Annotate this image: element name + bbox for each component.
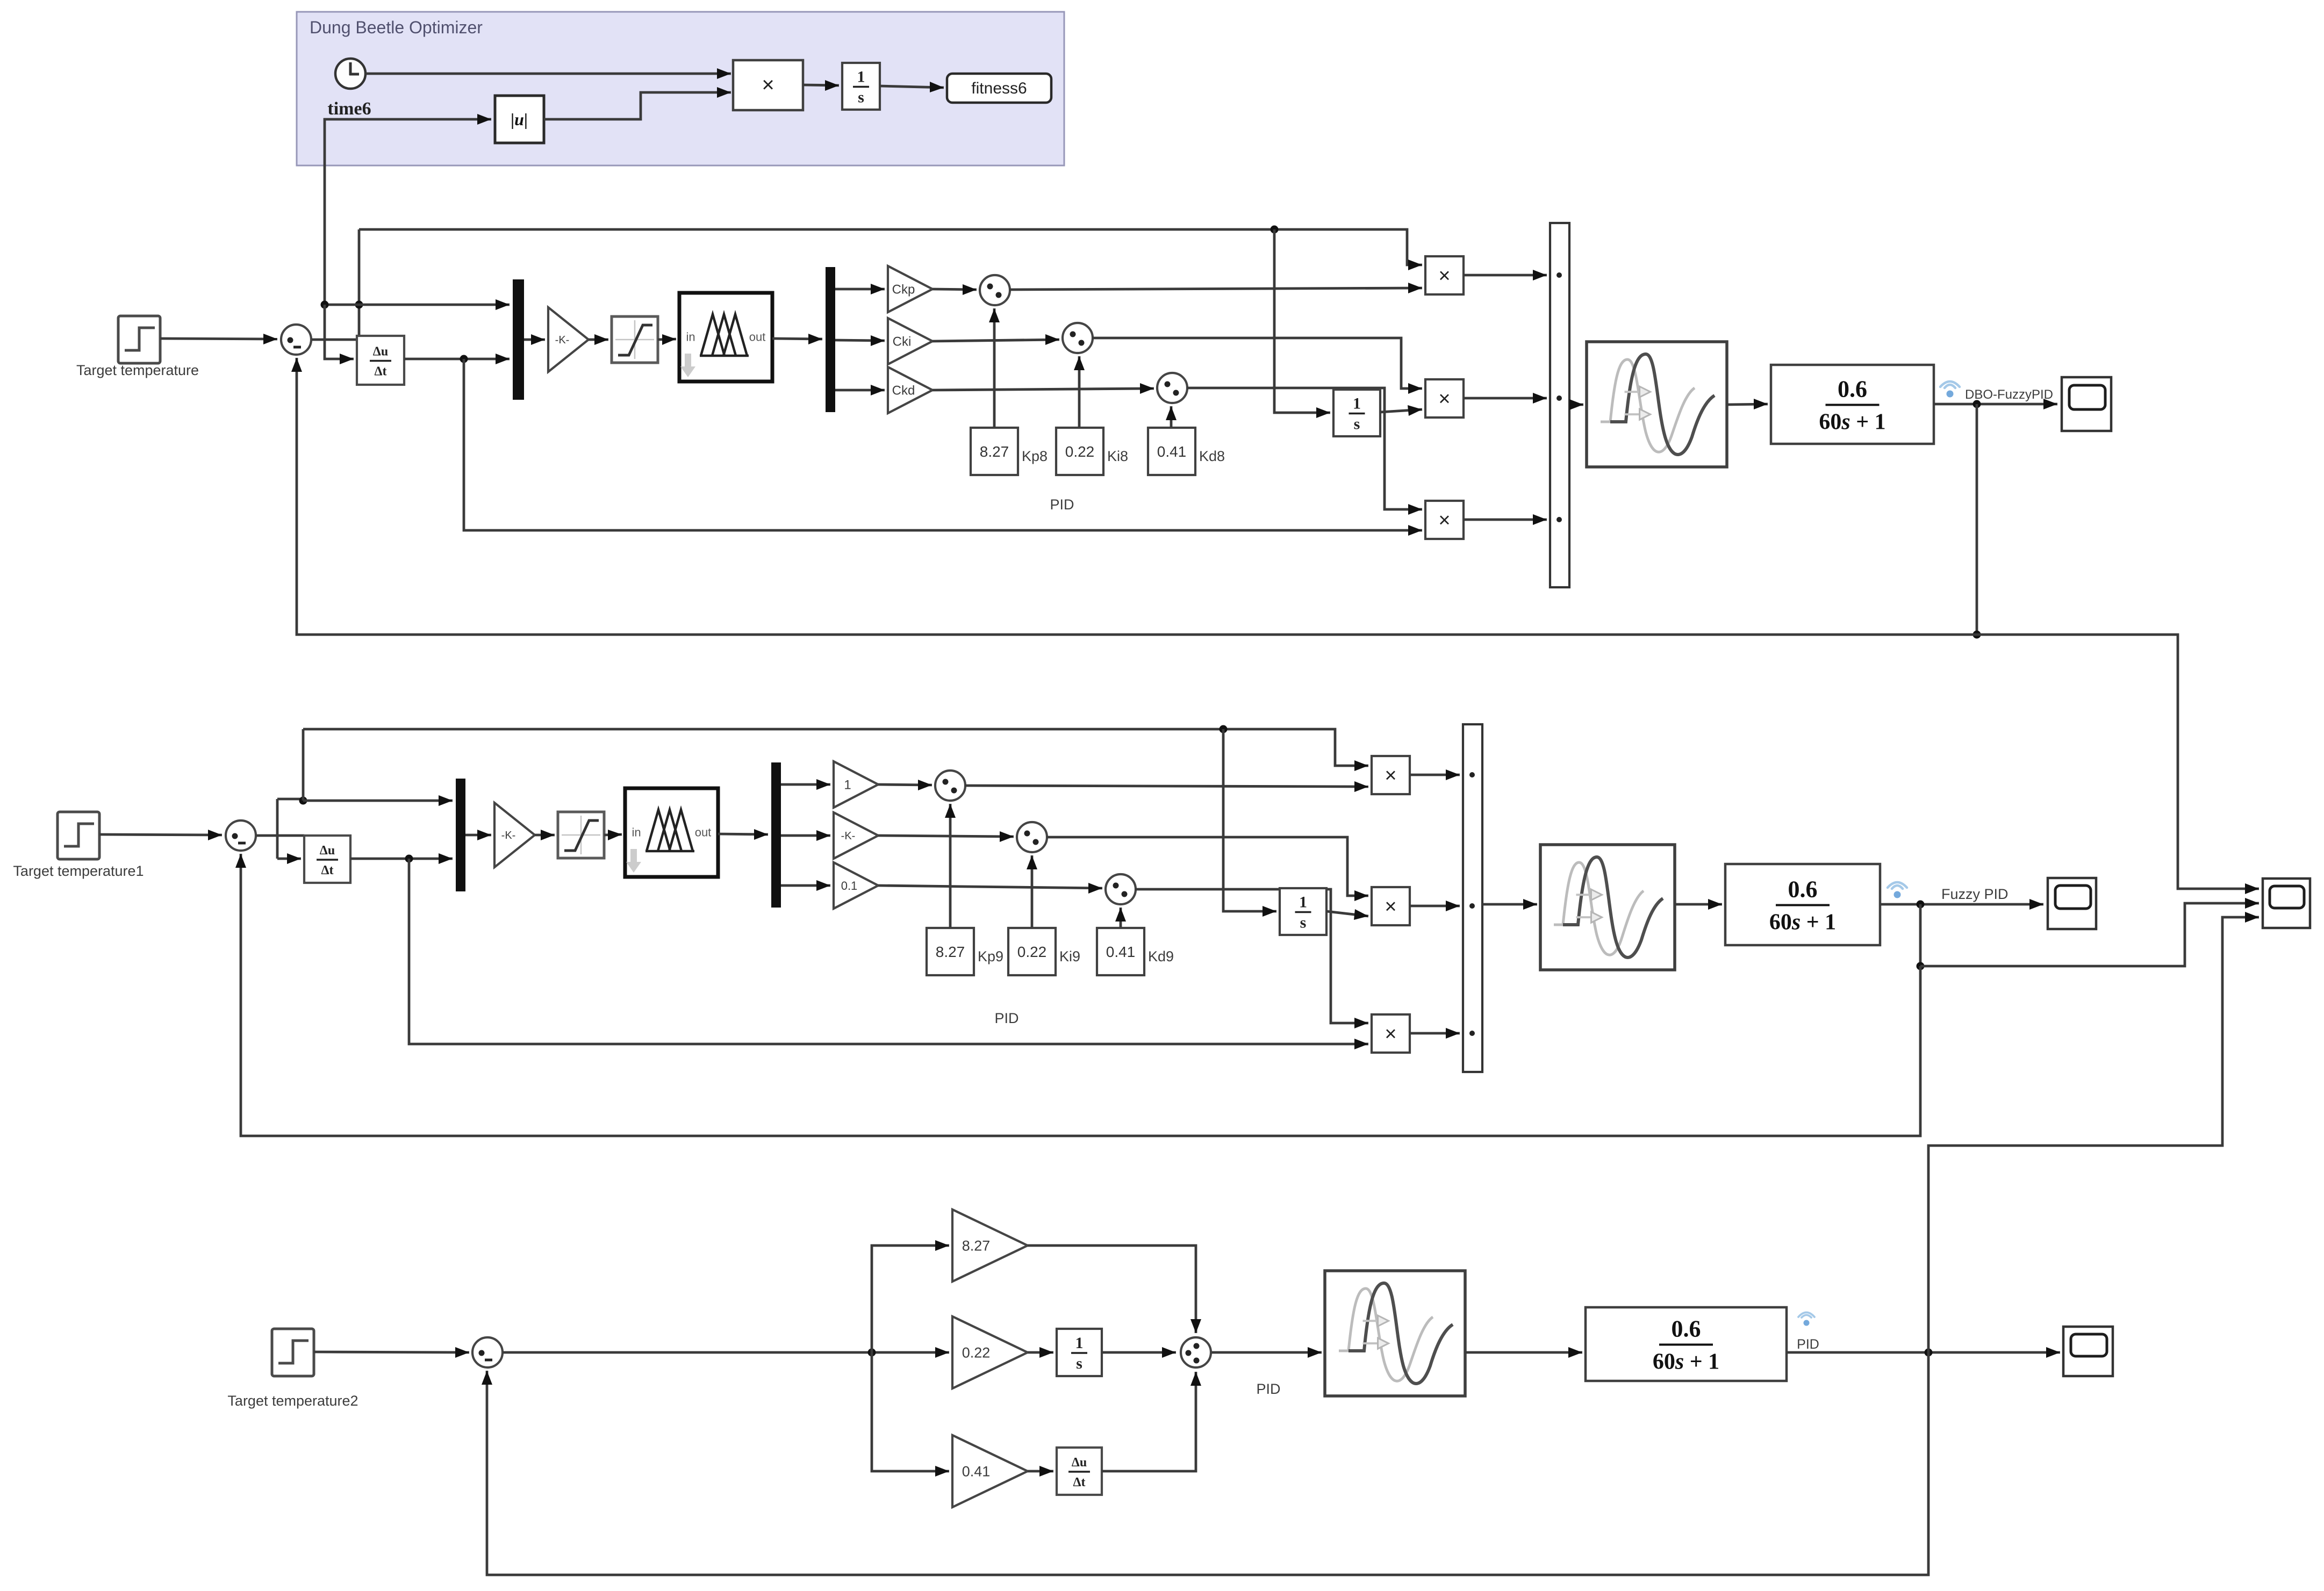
wire Kd sum to product 3 (middle) [1135, 889, 1368, 1028]
svg-text:60s + 1: 60s + 1 [1769, 910, 1836, 935]
product 3 (middle) [1372, 1014, 1410, 1053]
mux (middle row) [456, 779, 465, 891]
svg-text:out: out [695, 826, 712, 839]
wire du/dt to mux 2 (middle) [350, 853, 453, 864]
wire error riser (middle) [302, 729, 305, 801]
wire product 2 to adder [1464, 393, 1547, 404]
wire product to integrator [803, 80, 839, 91]
node e to integrator [1271, 226, 1279, 234]
wire bracket vertical (middle) [276, 799, 279, 859]
wire gain to saturation (middle) [535, 830, 555, 840]
transfer fcn 0.6/(60s+1) (top) [1771, 365, 1934, 444]
wire rate block to transfer fcn [1727, 399, 1768, 409]
gain Ckd [888, 367, 933, 413]
svg-text:0.41: 0.41 [962, 1464, 991, 1480]
node error branch 1 [355, 301, 363, 309]
product 1 (top) [1425, 256, 1464, 294]
svg-text:-K-: -K- [841, 830, 856, 842]
wire du/dt to mux input 2 [404, 354, 510, 364]
wire rate block to transfer fcn (bottom) [1465, 1347, 1582, 1358]
wire gain to saturation [589, 334, 608, 345]
wire rate block to transfer fcn (middle) [1675, 899, 1722, 910]
svg-text:1: 1 [1353, 395, 1361, 413]
wire sum to branch node [503, 1347, 949, 1358]
wire Cki to sum [933, 334, 1059, 345]
wire e down to integrator [1274, 229, 1330, 418]
svg-text:PID: PID [1050, 496, 1074, 513]
svg-text:0.6: 0.6 [1672, 1316, 1701, 1342]
wire clock to product [365, 68, 731, 79]
svg-text:1: 1 [844, 778, 851, 793]
node PID branch [868, 1349, 876, 1357]
svg-text:Ckp: Ckp [892, 283, 915, 297]
svg-text:Dung Beetle Optimizer: Dung Beetle Optimizer [310, 18, 483, 37]
wire abs to product [544, 87, 731, 119]
integrator 1/s (middle) [1280, 888, 1326, 935]
wire saturation to fuzzy controller [658, 334, 676, 345]
gain 0.22 (bottom) [952, 1316, 1028, 1388]
wire integrator to product 2 (middle) [1326, 909, 1368, 920]
svg-text:0.22: 0.22 [962, 1345, 991, 1361]
wire Kp sum to product 1 [1009, 283, 1422, 293]
svg-text:0.6: 0.6 [1838, 376, 1867, 402]
abs block |u| [495, 96, 544, 143]
svg-text:8.27: 8.27 [936, 944, 965, 960]
wire sum output to corner [312, 339, 359, 341]
svg-text:60s + 1: 60s + 1 [1653, 1350, 1719, 1374]
wire Ckd to sum [933, 383, 1154, 394]
svg-text:s: s [1076, 1355, 1082, 1372]
wire Ki sum to product 2 (middle) [1046, 837, 1368, 901]
svg-text:Δu: Δu [373, 345, 388, 359]
sum Kp adjust (middle) [935, 771, 965, 801]
step source Target temperature2 [272, 1329, 314, 1376]
product 3 (top) [1425, 501, 1464, 539]
wire Fuzzy PID to compare scope [1920, 898, 2259, 966]
wire integrator to product 2 [1380, 405, 1422, 416]
node DBO output [1973, 400, 1981, 408]
scope DBO-FuzzyPID [2062, 377, 2111, 431]
scope PID [2063, 1327, 2113, 1376]
wire step to sum [160, 334, 277, 344]
wire demux out 1 [835, 284, 885, 294]
svg-text:fitness6: fitness6 [971, 80, 1027, 97]
gain Cki [888, 318, 933, 364]
mux (top row) [513, 279, 524, 400]
wire branch to derivative tap [325, 304, 359, 306]
wire Kd sum to product 3 [1187, 388, 1422, 515]
wire error top line to product 1 [359, 229, 1422, 270]
sum PID (bottom) [1181, 1337, 1211, 1367]
svg-text:s: s [1354, 415, 1360, 433]
svg-text:Target temperature: Target temperature [76, 362, 199, 378]
sum Ki adjust (middle) [1017, 822, 1047, 852]
wire demux out 1 (middle) [781, 779, 830, 790]
svg-text:Ki8: Ki8 [1107, 448, 1128, 464]
wire feedback (middle) [235, 854, 1920, 1136]
svg-text:×: × [1438, 388, 1450, 411]
demux (top row) [826, 267, 835, 412]
wifi badge (top) [1940, 381, 1960, 398]
wire integrator to fitness6 [880, 82, 944, 92]
wire e to integrator (middle) [1223, 729, 1276, 917]
constant 8.27 Kp8 [971, 428, 1018, 475]
svg-text:1: 1 [1299, 894, 1307, 911]
wire demux out 3 (middle) [781, 880, 830, 891]
node error branch (middle) [299, 797, 307, 805]
gain 0.1 (middle) [834, 862, 878, 909]
wifi badge (bottom) [1798, 1312, 1814, 1326]
wire gainK to sum (middle) [878, 831, 1014, 842]
saturation block (middle) [558, 812, 604, 858]
wire Kd9 to sum [1115, 908, 1126, 928]
svg-text:Δt: Δt [374, 365, 386, 379]
svg-text:Kd9: Kd9 [1148, 948, 1174, 964]
wire demux out 2 (middle) [781, 830, 830, 841]
gain -K- (middle) [494, 803, 535, 867]
outport fitness6 [947, 74, 1051, 103]
scope Fuzzy PID [2048, 878, 2096, 929]
wire mux to gain (middle) [465, 830, 491, 840]
svg-text:1: 1 [857, 68, 865, 86]
node feedback split (top) [1973, 631, 1981, 639]
svg-text:Ki9: Ki9 [1059, 948, 1080, 964]
wire mux to gain [524, 334, 545, 345]
fuzzy logic controller (middle) [625, 788, 718, 877]
rate limiter block (top) [1587, 342, 1727, 467]
derivative block du/dt (bottom) [1057, 1448, 1102, 1495]
svg-text:Δt: Δt [321, 863, 333, 877]
svg-text:Δu: Δu [320, 844, 335, 858]
svg-text:0.41: 0.41 [1106, 944, 1136, 960]
sum junction S2 (middle row) [226, 820, 256, 851]
gain -K- demux (middle) [834, 812, 878, 859]
svg-text:8.27: 8.27 [962, 1238, 991, 1254]
svg-text:×: × [1385, 765, 1396, 787]
gain Ckp [888, 266, 933, 312]
node error branch 2 [321, 301, 329, 309]
product 1 (middle) [1372, 756, 1410, 794]
node e to integrator (middle) [1220, 725, 1228, 733]
product 2 (middle) [1372, 887, 1410, 925]
svg-text:Δu: Δu [1072, 1456, 1087, 1470]
rate limiter block (middle) [1540, 845, 1675, 970]
sum junction S1 (top row) [281, 325, 311, 355]
product 2 (top) [1425, 379, 1464, 417]
wire sum output (middle) [256, 834, 304, 837]
wire step1 to sum [99, 830, 222, 840]
step source Target temperature1 [58, 812, 99, 859]
svg-text:Cki: Cki [893, 335, 912, 349]
svg-text:0.1: 0.1 [841, 879, 858, 892]
transfer fcn 0.6/(60s+1) (bottom) [1586, 1307, 1787, 1381]
wire feedback to sum (top) [291, 358, 1977, 635]
wire error top line (middle) [303, 729, 1368, 771]
svg-text:in: in [686, 330, 695, 344]
wire error to mux input 1 [359, 299, 510, 310]
adder bar (middle) [1463, 724, 1482, 1072]
wire transfer fcn to scope [1934, 399, 2057, 409]
gain -K- (top) [548, 307, 589, 372]
wire Ki sum to product 2 [1092, 338, 1422, 394]
constant 8.27 Kp9 [927, 928, 974, 975]
wire Kp to big sum [1028, 1246, 1201, 1333]
svg-text:|u|: |u| [511, 110, 528, 129]
wire product 1 to adder [1464, 270, 1547, 280]
saturation block (top) [612, 316, 658, 363]
svg-text:s: s [858, 89, 864, 106]
svg-text:0.6: 0.6 [1788, 876, 1818, 903]
gain 0.41 (bottom) [952, 1435, 1028, 1507]
svg-text:0.22: 0.22 [1065, 443, 1095, 460]
svg-text:Kp9: Kp9 [978, 948, 1003, 964]
node output split (middle) [1917, 962, 1925, 970]
svg-text:0.22: 0.22 [1017, 944, 1047, 960]
wire branch up to Kp gain [872, 1240, 949, 1352]
svg-text:×: × [762, 73, 774, 97]
wire Ki9 to sum [1027, 855, 1037, 928]
wire product 3 to adder [1464, 514, 1547, 525]
svg-text:-K-: -K- [555, 334, 570, 346]
wire gain1 to sum (middle) [878, 780, 932, 790]
wire product 1 to adder (middle) [1410, 769, 1460, 780]
wire bracket to du/dt (middle) [277, 853, 301, 864]
gain 1 (middle) [834, 761, 878, 808]
scope compare (3 inputs) [2263, 879, 2310, 928]
wire error riser [358, 229, 361, 340]
wire transfer fcn to scope (middle) [1880, 899, 2043, 910]
wire Ckp to sum [933, 284, 977, 295]
step source Target temperature [118, 316, 160, 363]
svg-text:Kp8: Kp8 [1022, 448, 1048, 464]
wire Ki8 to sum [1074, 356, 1085, 428]
sum Kp adjust (top) [980, 275, 1010, 305]
node PID output [1925, 1349, 1933, 1357]
wire big sum to rate block [1211, 1347, 1322, 1358]
wire fuzzy to demux (middle) [718, 829, 768, 840]
clock time6 [335, 59, 365, 89]
svg-text:Δt: Δt [1073, 1475, 1085, 1489]
wire demux out 3 [835, 385, 885, 395]
fuzzy logic controller (top) [679, 293, 772, 381]
wire product 2 to adder (middle) [1410, 901, 1460, 911]
wire Kd gain to du/dt [1028, 1466, 1053, 1477]
wire transfer fcn to scope (bottom) [1787, 1347, 2060, 1358]
integrator 1/s (DBO) [842, 63, 880, 110]
wire gain01 to sum (middle) [878, 883, 1102, 894]
wire ec down to product 3 [464, 359, 1422, 536]
derivative block du/dt (middle) [304, 836, 350, 883]
svg-text:s: s [1300, 914, 1307, 932]
wire error tap into abs [325, 114, 491, 305]
svg-text:Kd8: Kd8 [1199, 448, 1225, 464]
node ec branch (middle) [405, 855, 413, 863]
svg-text:-K-: -K- [501, 830, 516, 841]
svg-text:out: out [749, 330, 766, 344]
wire step2 to sum [314, 1347, 469, 1358]
wire error to mux 1 (middle) [303, 795, 453, 806]
gain 8.27 (bottom) [952, 1210, 1028, 1282]
wire integrator to big sum [1102, 1347, 1176, 1358]
svg-text:Target temperature2: Target temperature2 [227, 1393, 358, 1409]
sum junction S3 (bottom row) [472, 1337, 503, 1367]
derivative block du/dt (top) [357, 336, 404, 385]
svg-text:DBO-FuzzyPID: DBO-FuzzyPID [1965, 387, 2053, 402]
wire Kd8 to sum [1166, 406, 1177, 428]
svg-text:0.41: 0.41 [1157, 443, 1187, 460]
wire du/dt to big sum [1102, 1372, 1201, 1471]
wire fuzzy to demux [772, 334, 822, 344]
svg-text:Ckd: Ckd [892, 384, 915, 398]
svg-text:Fuzzy PID: Fuzzy PID [1941, 886, 2009, 902]
constant 0.22 Ki9 [1008, 928, 1056, 975]
svg-text:8.27: 8.27 [980, 443, 1009, 460]
product block (DBO) [733, 60, 803, 110]
wire adder to rate block [1569, 399, 1583, 410]
wire Kp sum to product 1 (middle) [965, 781, 1368, 792]
wire product 3 to adder (middle) [1410, 1028, 1460, 1039]
svg-text:PID: PID [994, 1010, 1018, 1026]
svg-text:×: × [1438, 265, 1450, 287]
constant 0.41 Kd9 [1097, 928, 1144, 975]
wire Kp9 to sum [945, 804, 956, 928]
wire Kp8 to sum [989, 308, 1000, 428]
demux (middle row) [771, 762, 781, 908]
wire ec to product 3 (middle) [409, 859, 1368, 1049]
sum Kd adjust (top) [1157, 373, 1187, 403]
wire feedback down (top) [1976, 404, 1978, 635]
svg-text:Target temperature1: Target temperature1 [13, 863, 144, 879]
node Fuzzy PID output [1917, 901, 1925, 909]
svg-text:PID: PID [1256, 1381, 1280, 1397]
wire bracket top (middle) [277, 798, 303, 801]
wire DBO output to compare scope [1977, 635, 2259, 894]
adder bar (top) [1550, 223, 1569, 587]
svg-text:×: × [1385, 896, 1396, 918]
wire feedback (bottom) [482, 1352, 1928, 1575]
subsystem area Dung Beetle Optimizer [297, 12, 1064, 165]
svg-text:PID: PID [1797, 1337, 1819, 1352]
svg-text:×: × [1385, 1023, 1396, 1046]
wire saturation to fuzzy (middle) [604, 830, 622, 840]
wire branch down to Kd gain [872, 1352, 949, 1477]
constant 0.22 Ki8 [1056, 428, 1103, 475]
svg-text:in: in [632, 826, 641, 839]
wire adder to rate block (middle) [1482, 899, 1537, 910]
node ec branch [460, 355, 468, 363]
wire error down to du/dt [325, 305, 354, 364]
constant 0.41 Kd8 [1148, 428, 1195, 475]
integrator 1/s (bottom) [1057, 1329, 1102, 1376]
svg-text:60s + 1: 60s + 1 [1819, 410, 1885, 435]
wire PID output to compare scope [1928, 912, 2259, 1352]
wire demux out 2 [835, 335, 885, 346]
wifi badge (middle) [1888, 882, 1907, 898]
sum Ki adjust (top) [1063, 323, 1093, 353]
svg-text:time6: time6 [327, 99, 371, 119]
transfer fcn 0.6/(60s+1) (middle) [1725, 864, 1880, 945]
wire output down (middle) [1919, 904, 1922, 966]
sum Kd adjust (middle) [1106, 874, 1136, 904]
wire Ki gain to integrator [1028, 1347, 1053, 1358]
integrator 1/s (top) [1333, 390, 1380, 436]
rate limiter block (bottom) [1325, 1271, 1465, 1396]
svg-text:1: 1 [1075, 1334, 1084, 1352]
svg-text:×: × [1438, 509, 1450, 532]
